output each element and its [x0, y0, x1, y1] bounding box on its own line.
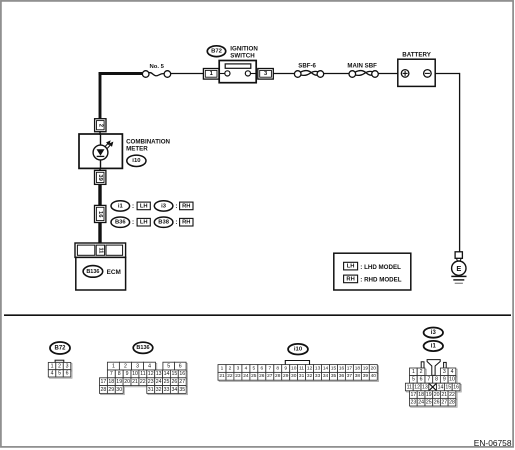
- svg-text:21: 21: [441, 392, 447, 398]
- svg-text:SWITCH: SWITCH: [230, 52, 255, 59]
- svg-text:i10: i10: [294, 347, 303, 353]
- svg-text:1: 1: [112, 363, 115, 369]
- svg-text:33: 33: [315, 373, 321, 379]
- svg-text:14: 14: [323, 365, 329, 371]
- svg-text:27: 27: [267, 373, 273, 379]
- svg-text:2: 2: [97, 124, 103, 127]
- svg-text:10: 10: [291, 365, 297, 371]
- svg-text:10: 10: [132, 371, 138, 377]
- svg-text:16: 16: [339, 365, 345, 371]
- svg-text:12: 12: [414, 384, 420, 390]
- svg-text:LH: LH: [347, 264, 355, 270]
- svg-text:4: 4: [51, 371, 54, 377]
- svg-text:7: 7: [110, 371, 113, 377]
- svg-text:2: 2: [124, 363, 127, 369]
- svg-text:MAIN SBF: MAIN SBF: [347, 62, 377, 69]
- svg-text:13: 13: [422, 384, 428, 390]
- svg-text:11: 11: [97, 247, 103, 253]
- svg-text:26: 26: [434, 400, 440, 406]
- svg-text:31: 31: [299, 373, 305, 379]
- svg-text:6: 6: [179, 363, 182, 369]
- svg-text:32: 32: [307, 373, 313, 379]
- svg-text:30: 30: [116, 387, 122, 393]
- svg-text:35: 35: [179, 387, 185, 393]
- svg-text:B38: B38: [158, 220, 169, 226]
- svg-text:IGNITION: IGNITION: [230, 45, 258, 52]
- svg-text:27: 27: [441, 400, 447, 406]
- svg-text:B72: B72: [54, 345, 66, 351]
- svg-text:1: 1: [221, 365, 224, 371]
- svg-text:15: 15: [445, 384, 451, 390]
- svg-text:: RHD MODEL: : RHD MODEL: [360, 277, 401, 284]
- svg-text:27: 27: [179, 379, 185, 385]
- svg-text:i3: i3: [431, 330, 437, 336]
- svg-text:3: 3: [237, 365, 240, 371]
- svg-text:22: 22: [140, 379, 146, 385]
- svg-text:20: 20: [371, 365, 377, 371]
- svg-text:4: 4: [451, 369, 454, 375]
- svg-text:4: 4: [245, 365, 248, 371]
- svg-text:METER: METER: [126, 146, 148, 153]
- svg-text:2: 2: [229, 365, 232, 371]
- svg-text:11: 11: [407, 384, 412, 390]
- svg-text:1: 1: [412, 369, 415, 375]
- svg-text:17: 17: [101, 379, 107, 385]
- svg-text:19: 19: [426, 392, 432, 398]
- svg-text:1: 1: [51, 363, 54, 369]
- svg-text:31: 31: [148, 387, 154, 393]
- svg-text:4: 4: [148, 363, 151, 369]
- svg-text:5: 5: [412, 377, 415, 383]
- svg-text:39: 39: [97, 174, 103, 181]
- svg-text::: :: [175, 219, 177, 226]
- svg-text:7: 7: [268, 365, 271, 371]
- svg-text:33: 33: [164, 387, 170, 393]
- svg-text:30: 30: [291, 373, 297, 379]
- svg-text:19: 19: [116, 379, 122, 385]
- svg-text:20: 20: [434, 392, 440, 398]
- svg-text:29: 29: [108, 387, 114, 393]
- svg-text:23: 23: [148, 379, 154, 385]
- svg-text:12: 12: [307, 365, 313, 371]
- svg-text:23: 23: [411, 400, 417, 406]
- svg-text:15: 15: [331, 365, 337, 371]
- svg-text:40: 40: [371, 373, 377, 379]
- svg-text:LH: LH: [140, 220, 148, 226]
- svg-text:i3: i3: [161, 203, 167, 209]
- svg-text:6: 6: [66, 371, 69, 377]
- svg-text:18: 18: [355, 365, 361, 371]
- svg-text:25: 25: [251, 373, 257, 379]
- svg-text:37: 37: [347, 373, 353, 379]
- svg-text:2: 2: [420, 369, 423, 375]
- svg-text:RH: RH: [182, 203, 190, 209]
- svg-text:21: 21: [132, 379, 138, 385]
- svg-text:6: 6: [260, 365, 263, 371]
- svg-text:8: 8: [118, 371, 121, 377]
- svg-text:12: 12: [148, 371, 154, 377]
- svg-text:8: 8: [435, 377, 438, 383]
- svg-text:8: 8: [276, 365, 279, 371]
- svg-text:34: 34: [323, 373, 329, 379]
- svg-text:32: 32: [156, 387, 162, 393]
- svg-text:2: 2: [58, 363, 61, 369]
- svg-text:i1: i1: [431, 343, 437, 349]
- svg-text:ECM: ECM: [107, 269, 121, 276]
- svg-text:29: 29: [283, 373, 289, 379]
- svg-text:17: 17: [347, 365, 353, 371]
- svg-text:B72: B72: [211, 49, 223, 55]
- svg-text:B136: B136: [136, 345, 149, 351]
- svg-text:15: 15: [172, 371, 178, 377]
- svg-text:16: 16: [179, 371, 185, 377]
- svg-text:13: 13: [315, 365, 321, 371]
- svg-text:25: 25: [426, 400, 432, 406]
- svg-text:9: 9: [443, 377, 446, 383]
- svg-text:28: 28: [275, 373, 281, 379]
- svg-text:SBF-6: SBF-6: [298, 62, 316, 69]
- svg-text:16: 16: [97, 211, 103, 218]
- svg-text:11: 11: [299, 365, 304, 371]
- svg-text:5: 5: [167, 363, 170, 369]
- svg-text:23: 23: [235, 373, 241, 379]
- svg-text::: :: [132, 219, 134, 226]
- svg-text:9: 9: [126, 371, 129, 377]
- svg-text:9: 9: [284, 365, 287, 371]
- svg-text:24: 24: [418, 400, 424, 406]
- svg-text:3: 3: [66, 363, 69, 369]
- svg-text:24: 24: [156, 379, 162, 385]
- svg-text:LH: LH: [140, 203, 148, 209]
- svg-text:10: 10: [449, 377, 455, 383]
- svg-text:7: 7: [427, 377, 430, 383]
- svg-text:22: 22: [227, 373, 233, 379]
- svg-text:6: 6: [420, 377, 423, 383]
- svg-text:14: 14: [438, 384, 444, 390]
- svg-text:5: 5: [252, 365, 255, 371]
- svg-text:18: 18: [108, 379, 114, 385]
- svg-text:35: 35: [331, 373, 337, 379]
- svg-text:BATTERY: BATTERY: [402, 51, 431, 58]
- svg-text:i10: i10: [132, 158, 141, 164]
- svg-text:24: 24: [243, 373, 249, 379]
- svg-text:14: 14: [164, 371, 170, 377]
- svg-text:21: 21: [219, 373, 225, 379]
- svg-text:26: 26: [172, 379, 178, 385]
- svg-text::: :: [132, 203, 134, 210]
- svg-text:18: 18: [418, 392, 424, 398]
- svg-text:11: 11: [140, 371, 145, 377]
- svg-text:B136: B136: [86, 269, 99, 275]
- svg-text::: :: [175, 203, 177, 210]
- svg-text:RH: RH: [182, 220, 190, 226]
- svg-text:20: 20: [124, 379, 130, 385]
- svg-text:RH: RH: [346, 276, 354, 282]
- svg-text:19: 19: [363, 365, 369, 371]
- svg-text:3: 3: [443, 369, 446, 375]
- svg-text:17: 17: [411, 392, 417, 398]
- svg-text:i1: i1: [118, 203, 124, 209]
- svg-text:No. 5: No. 5: [150, 64, 165, 70]
- svg-text:: LHD MODEL: : LHD MODEL: [360, 264, 401, 271]
- svg-text:3: 3: [136, 363, 139, 369]
- svg-text:36: 36: [339, 373, 345, 379]
- svg-text:28: 28: [101, 387, 107, 393]
- svg-text:22: 22: [449, 392, 455, 398]
- svg-text:39: 39: [363, 373, 369, 379]
- svg-text:28: 28: [449, 400, 455, 406]
- svg-text:E: E: [456, 264, 461, 273]
- svg-text:5: 5: [58, 371, 61, 377]
- svg-text:13: 13: [156, 371, 162, 377]
- svg-text:16: 16: [453, 384, 459, 390]
- svg-text:26: 26: [259, 373, 265, 379]
- svg-text:COMBINATION: COMBINATION: [126, 139, 170, 146]
- svg-text:25: 25: [164, 379, 170, 385]
- svg-text:38: 38: [355, 373, 361, 379]
- svg-text:B36: B36: [115, 220, 126, 226]
- svg-text:34: 34: [172, 387, 178, 393]
